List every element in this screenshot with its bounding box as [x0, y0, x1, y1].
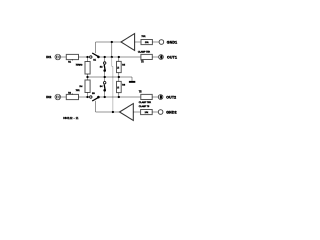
- node L junction (ch2 rail / S4): [104, 96, 106, 98]
- node C junction on ch1 rail: [111, 56, 113, 58]
- node E junction (S2 top): [104, 56, 106, 58]
- wire R6 bottom lead: [118, 93, 120, 97]
- connector K3 (GND1): [159, 40, 164, 45]
- wire riser node B to ch1 rail: [111, 42, 113, 57]
- node J junction: [86, 96, 88, 98]
- wire R3 to mid rail: [87, 74, 89, 77]
- resistor R9: [141, 94, 152, 99]
- svg-text:IN2: IN2: [46, 95, 51, 99]
- svg-text:OUT2: OUT2: [166, 95, 176, 99]
- svg-text:CLAMP 75R: CLAMP 75R: [138, 50, 151, 53]
- resistor R2: [66, 93, 78, 99]
- node I junction (R5 to mid rail): [118, 76, 120, 78]
- svg-text:OUT1: OUT1: [167, 55, 177, 59]
- resistor R6: [117, 81, 122, 92]
- svg-text:GND1: GND1: [167, 40, 178, 44]
- svg-text:GND2: GND2: [166, 110, 177, 114]
- svg-text:CLAMP 75R: CLAMP 75R: [139, 101, 152, 104]
- svg-text:IN1: IN1: [46, 55, 51, 59]
- resistor R5: [117, 61, 122, 72]
- wire R5 bottom lead: [118, 73, 120, 77]
- wire R1 to node A: [79, 56, 91, 58]
- svg-text:75: 75: [118, 87, 120, 89]
- wire S3 riser to bottom rail: [96, 101, 120, 112]
- ground: [129, 81, 135, 83]
- wire R5 top lead: [118, 57, 120, 61]
- resistor R3: [85, 62, 90, 75]
- resistor R8: [141, 54, 152, 59]
- wire S1 riser to top rail: [96, 42, 121, 53]
- node K junction (S4 top): [104, 80, 106, 82]
- wire ch1 rail: [98, 56, 141, 58]
- wire R4 to node J: [87, 93, 89, 98]
- node H junction (R5 top on ch1 rail): [118, 56, 120, 58]
- wire R7 to K3: [152, 41, 159, 43]
- wire R8 to K4: [152, 56, 158, 58]
- resistor R1: [66, 54, 78, 60]
- svg-text:75: 75: [118, 67, 120, 69]
- switch S2: [103, 57, 106, 77]
- wire R2 to node J: [79, 96, 91, 98]
- wire R6 top lead: [118, 77, 120, 81]
- svg-text:75R: 75R: [141, 36, 145, 38]
- node M junction (R6 on ch2 rail): [118, 96, 120, 98]
- wire node A to R3: [87, 57, 89, 62]
- connector K5 (OUT2 plug): [158, 95, 163, 100]
- svg-text:75R: 75R: [76, 90, 80, 92]
- connector K2 (IN2 cinch socket): [55, 94, 61, 100]
- resistor R4: [85, 80, 90, 93]
- op-amp IC1a: [121, 34, 135, 51]
- connector K6 (GND2): [158, 110, 163, 115]
- wire mid rail: [88, 77, 133, 81]
- node G junction (mid rail left): [86, 76, 88, 78]
- wire IC1a to R7: [135, 41, 141, 43]
- wire K1 to R1: [61, 56, 67, 58]
- switch S1: [90, 53, 100, 58]
- connector K4 (OUT1 plug): [159, 55, 164, 60]
- wire R10 to K6: [152, 111, 158, 113]
- wire ch2 rail: [98, 96, 141, 98]
- wire mid rail to R4: [87, 77, 89, 80]
- wire R9 to K5: [152, 96, 158, 98]
- resistor R10: [141, 110, 153, 115]
- node A junction: [86, 56, 88, 58]
- node D junction (lower amp wire): [112, 111, 114, 113]
- wire thin link ch1 to lower amp: [112, 57, 113, 112]
- node F junction (mid rail / S2): [104, 76, 106, 78]
- node B junction (amp input riser top): [111, 41, 113, 43]
- switch S4: [103, 77, 106, 97]
- svg-text:060122 - 11: 060122 - 11: [63, 118, 79, 120]
- resistor R7: [141, 40, 152, 45]
- switch S3: [90, 96, 100, 101]
- svg-text:CLAMP 75: CLAMP 75: [139, 105, 150, 108]
- connector K1 (IN1 cinch socket): [55, 54, 61, 60]
- wire K2 to R2: [61, 96, 67, 98]
- op-amp IC1b: [120, 104, 134, 121]
- wire IC1b to R10: [133, 111, 140, 113]
